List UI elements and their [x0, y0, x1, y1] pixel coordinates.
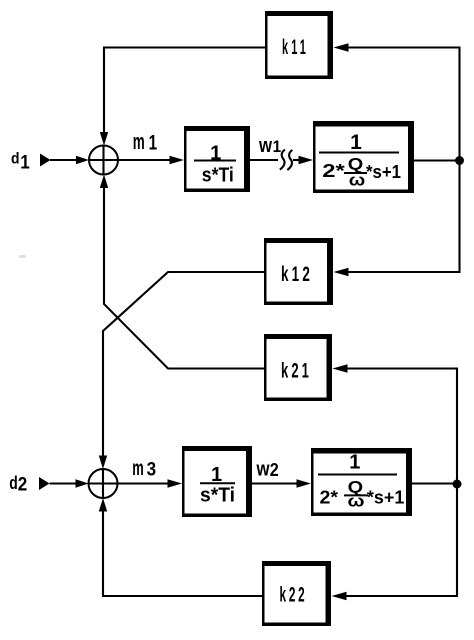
svg-text:k12: k12	[281, 263, 313, 286]
svg-text:3: 3	[147, 458, 157, 480]
block U1 integrator 1/(s*Ti) row 1	[184, 126, 250, 192]
arrow into U3	[168, 479, 183, 487]
block U2 lag 1/(2*(Q/w)*s+1) row 1	[313, 121, 414, 193]
wire N1 up to k11	[346, 48, 460, 161]
svg-text:*s+1: *s+1	[366, 162, 401, 182]
break squiggle mark	[280, 150, 293, 170]
input source triangle d2	[39, 477, 50, 490]
node N1	[455, 156, 464, 165]
svg-text:*s+1: *s+1	[367, 488, 405, 508]
summing junction S2	[89, 469, 118, 498]
arrow into S1 top	[100, 132, 108, 146]
block k22	[262, 561, 331, 626]
svg-text:w: w	[258, 135, 272, 157]
wire d1 to S1	[50, 159, 77, 161]
arrow into U4	[297, 479, 312, 487]
wire N2 up to k21	[345, 369, 457, 484]
arrow into S2 top	[99, 456, 107, 470]
wire S2 to U3	[118, 482, 170, 484]
svg-text:ω: ω	[348, 492, 365, 510]
wire k11 out to S1 top	[104, 48, 265, 134]
arrow into S1 bottom	[100, 175, 108, 189]
svg-text:d: d	[9, 473, 17, 493]
wire N1 down to k12	[346, 161, 460, 273]
block k11	[265, 11, 333, 79]
arrow into U2	[299, 156, 314, 164]
arrow into k22	[332, 592, 347, 600]
svg-text:k21: k21	[281, 360, 312, 383]
smudge artifact	[19, 255, 26, 258]
svg-text:w: w	[256, 459, 270, 481]
node N2	[453, 480, 462, 489]
svg-text:1: 1	[20, 151, 30, 173]
svg-text:k11: k11	[282, 36, 309, 59]
svg-text:m: m	[133, 129, 145, 154]
summing junction S1	[89, 146, 118, 175]
wire U2 to node N1	[414, 159, 460, 161]
wire U4 to node N2	[412, 482, 457, 484]
input source triangle d1	[40, 154, 51, 167]
svg-text:1: 1	[350, 131, 362, 154]
arrow into k21	[333, 364, 348, 372]
arrow into k11	[334, 43, 349, 51]
arrow into k12	[334, 268, 349, 276]
svg-text:2*: 2*	[322, 161, 345, 181]
svg-text:1: 1	[349, 452, 360, 474]
arrow into S2 bottom	[99, 498, 107, 512]
wire U1 to break	[250, 159, 278, 161]
svg-text:s*Ti: s*Ti	[202, 165, 234, 187]
svg-text:s*Ti: s*Ti	[200, 485, 235, 507]
svg-text:m: m	[132, 456, 144, 480]
block k21	[264, 334, 332, 401]
svg-text:1: 1	[273, 137, 282, 156]
wire k22 out to S2 bottom	[103, 511, 262, 596]
svg-text:2*: 2*	[320, 488, 339, 508]
svg-text:2: 2	[270, 459, 279, 480]
wire k21 out diagonal to S1 bottom	[104, 188, 264, 369]
svg-text:1: 1	[149, 132, 158, 155]
wire U3 to U4	[252, 482, 299, 484]
wire k12 out diagonal to S2 top	[103, 272, 264, 457]
svg-text:k22: k22	[280, 584, 308, 607]
arrow into U1	[170, 156, 185, 164]
block U4 lag 1/(2*(Q/w)*s+1) row 2	[311, 448, 412, 516]
wire N2 down to k22	[344, 484, 457, 596]
block k12	[264, 238, 333, 305]
wire d2 to S2	[50, 482, 77, 484]
wire break to U2	[293, 159, 301, 161]
svg-text:d: d	[11, 150, 20, 167]
arrow into S1 left	[76, 156, 89, 164]
block U3 integrator 1/(s*Ti) row 2	[182, 446, 252, 517]
wire S1 to U1	[118, 159, 172, 161]
svg-text:2: 2	[18, 475, 28, 496]
svg-text:ω: ω	[349, 171, 366, 189]
arrow into S2 left	[76, 479, 89, 487]
